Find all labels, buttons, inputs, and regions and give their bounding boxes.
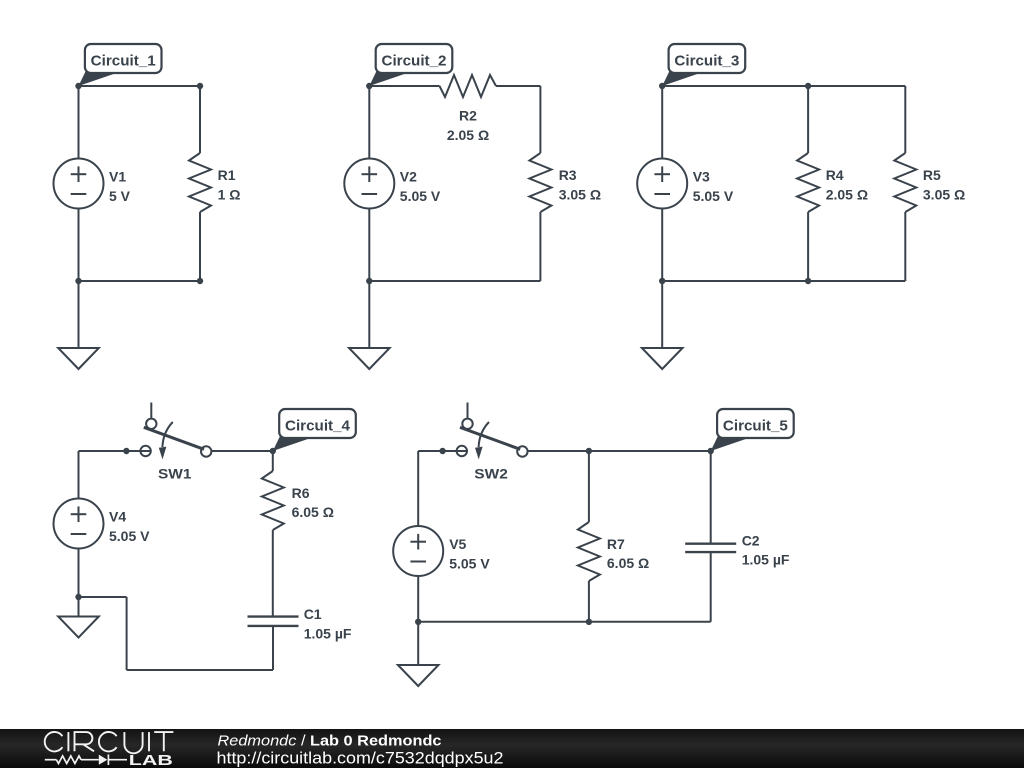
label V5 5.05 V [449,536,490,571]
svg-text:Circuit_1: Circuit_1 [91,53,156,70]
ground [642,281,683,369]
svg-text:R6: R6 [292,485,310,501]
wire [588,451,590,522]
ground [349,281,390,369]
svg-text:R4: R4 [826,167,844,183]
wire [661,86,663,159]
svg-text:V2: V2 [400,169,417,185]
label C2 1.05 uF [742,532,790,567]
svg-text:6.05 Ω: 6.05 Ω [607,555,649,571]
node [659,278,665,284]
label V2 5.05 V [400,169,441,204]
wire [199,86,201,153]
wire [417,576,419,622]
logo diode [99,755,108,765]
svg-text:5.05 V: 5.05 V [400,188,441,204]
node [75,278,81,284]
svg-text:V4: V4 [109,509,126,525]
wire [710,451,712,544]
node [366,278,372,284]
svg-text:1.05 µF: 1.05 µF [304,626,352,642]
svg-text:2.05 Ω: 2.05 Ω [826,186,868,202]
resistor R3 [529,153,551,212]
svg-text:5.05 V: 5.05 V [109,528,150,544]
svg-text:5.05 V: 5.05 V [449,555,490,571]
svg-text:SW1: SW1 [158,466,192,482]
wire [127,669,273,671]
wire [79,450,141,452]
svg-text:1 Ω: 1 Ω [218,186,241,202]
label R7 6.05 ohm [607,536,649,571]
svg-text:R7: R7 [607,536,625,552]
callout Circuit_1 [79,44,162,86]
wire [272,626,274,670]
ground [398,622,439,686]
node [708,448,714,454]
wire [272,530,274,617]
wire [368,86,370,159]
node [439,448,445,454]
wire [369,85,439,87]
callout Circuit_2 [369,44,452,86]
label R2 2.05 ohm [447,108,489,143]
label R5 3.05 ohm [923,167,965,202]
wire [272,451,274,471]
resistor R2 [440,75,497,97]
node [415,619,421,625]
svg-text:6.05 Ω: 6.05 Ω [292,504,334,520]
wire [78,209,80,282]
svg-text:SW2: SW2 [474,466,508,482]
label R1 1 ohm [218,167,241,202]
wire [79,85,201,87]
wire [457,450,468,452]
label V1 5 V [109,169,131,204]
node [805,278,811,284]
wire [79,596,127,598]
wire [78,451,80,499]
wire [807,86,809,153]
wire [588,581,590,622]
svg-text:V1: V1 [109,169,126,185]
node [586,448,592,454]
svg-text:5 V: 5 V [109,188,131,204]
svg-text:2.05 Ω: 2.05 Ω [447,127,489,143]
svg-text:1.05 µF: 1.05 µF [742,552,790,568]
wire [904,86,906,153]
svg-text:LAB: LAB [129,752,173,768]
node [75,83,81,89]
label R6 6.05 ohm [292,485,334,520]
wire [417,451,419,526]
callout Circuit_5 [711,409,794,451]
node [270,448,276,454]
resistor R7 [578,522,600,581]
node [659,83,665,89]
svg-text:V5: V5 [449,536,466,552]
resistor R5 [894,153,916,212]
wire [539,212,541,281]
wire [710,552,712,622]
wire [662,280,905,282]
wire [807,212,809,281]
svg-text:R1: R1 [218,167,236,183]
capacitor C1 [248,617,299,626]
resistor R1 [189,153,211,212]
switch SW2 [457,403,528,460]
wire [78,86,80,159]
svg-text:Circuit_2: Circuit_2 [382,53,447,70]
svg-text:R3: R3 [559,167,577,183]
svg-text:R2: R2 [459,108,477,124]
wire [528,450,711,452]
voltage source V4 [54,499,104,549]
ground [58,281,99,369]
ground [58,597,99,638]
resistor R6 [262,471,284,530]
svg-text:Redmondc / Lab 0 Redmondc: Redmondc / Lab 0 Redmondc [218,733,442,749]
wire [126,597,128,670]
node [123,448,129,454]
wire [140,450,151,452]
svg-text:Circuit_4: Circuit_4 [285,418,351,435]
svg-text:C2: C2 [742,532,760,548]
voltage source V2 [344,159,394,209]
svg-text:Circuit_3: Circuit_3 [674,53,739,70]
node [586,619,592,625]
svg-text:3.05 Ω: 3.05 Ω [559,186,601,202]
logo resistor-diode squiggle [45,754,127,765]
footer title [217,733,504,767]
node [805,83,811,89]
capacitor C2 [685,544,736,552]
svg-text:5.05 V: 5.05 V [693,188,734,204]
label V4 5.05 V [109,509,150,544]
wire [369,280,540,282]
label R3 3.05 ohm [559,167,601,202]
voltage source V5 [393,526,443,576]
wire [418,621,711,623]
node [75,594,81,600]
wire [78,549,80,598]
wire [79,280,201,282]
wire [662,85,905,87]
voltage source V1 [54,159,104,209]
callout Circuit_4 [273,409,356,451]
svg-text:R5: R5 [923,167,941,183]
resistor R4 [797,153,819,212]
wire [661,209,663,282]
svg-text:C1: C1 [304,606,322,622]
node [197,83,203,89]
wire [368,209,370,282]
svg-text:http://circuitlab.com/c7532dqd: http://circuitlab.com/c7532dqdpx5u2 [217,749,504,767]
wire [418,450,456,452]
wire [496,85,540,87]
wire [199,212,201,281]
wire [539,86,541,153]
label R4 2.05 ohm [826,167,868,202]
switch SW1 [140,403,211,460]
voltage source V3 [637,159,687,209]
svg-text:3.05 Ω: 3.05 Ω [923,186,965,202]
label V3 5.05 V [693,169,734,204]
label C1 1.05 uF [304,606,352,641]
wire [904,212,906,281]
wire [212,450,273,452]
svg-text:Circuit_5: Circuit_5 [723,418,788,435]
CircuitLab logo CIRCUIT [45,732,174,753]
callout Circuit_3 [662,44,745,86]
node [366,83,372,89]
svg-text:V3: V3 [693,169,710,185]
node [197,278,203,284]
